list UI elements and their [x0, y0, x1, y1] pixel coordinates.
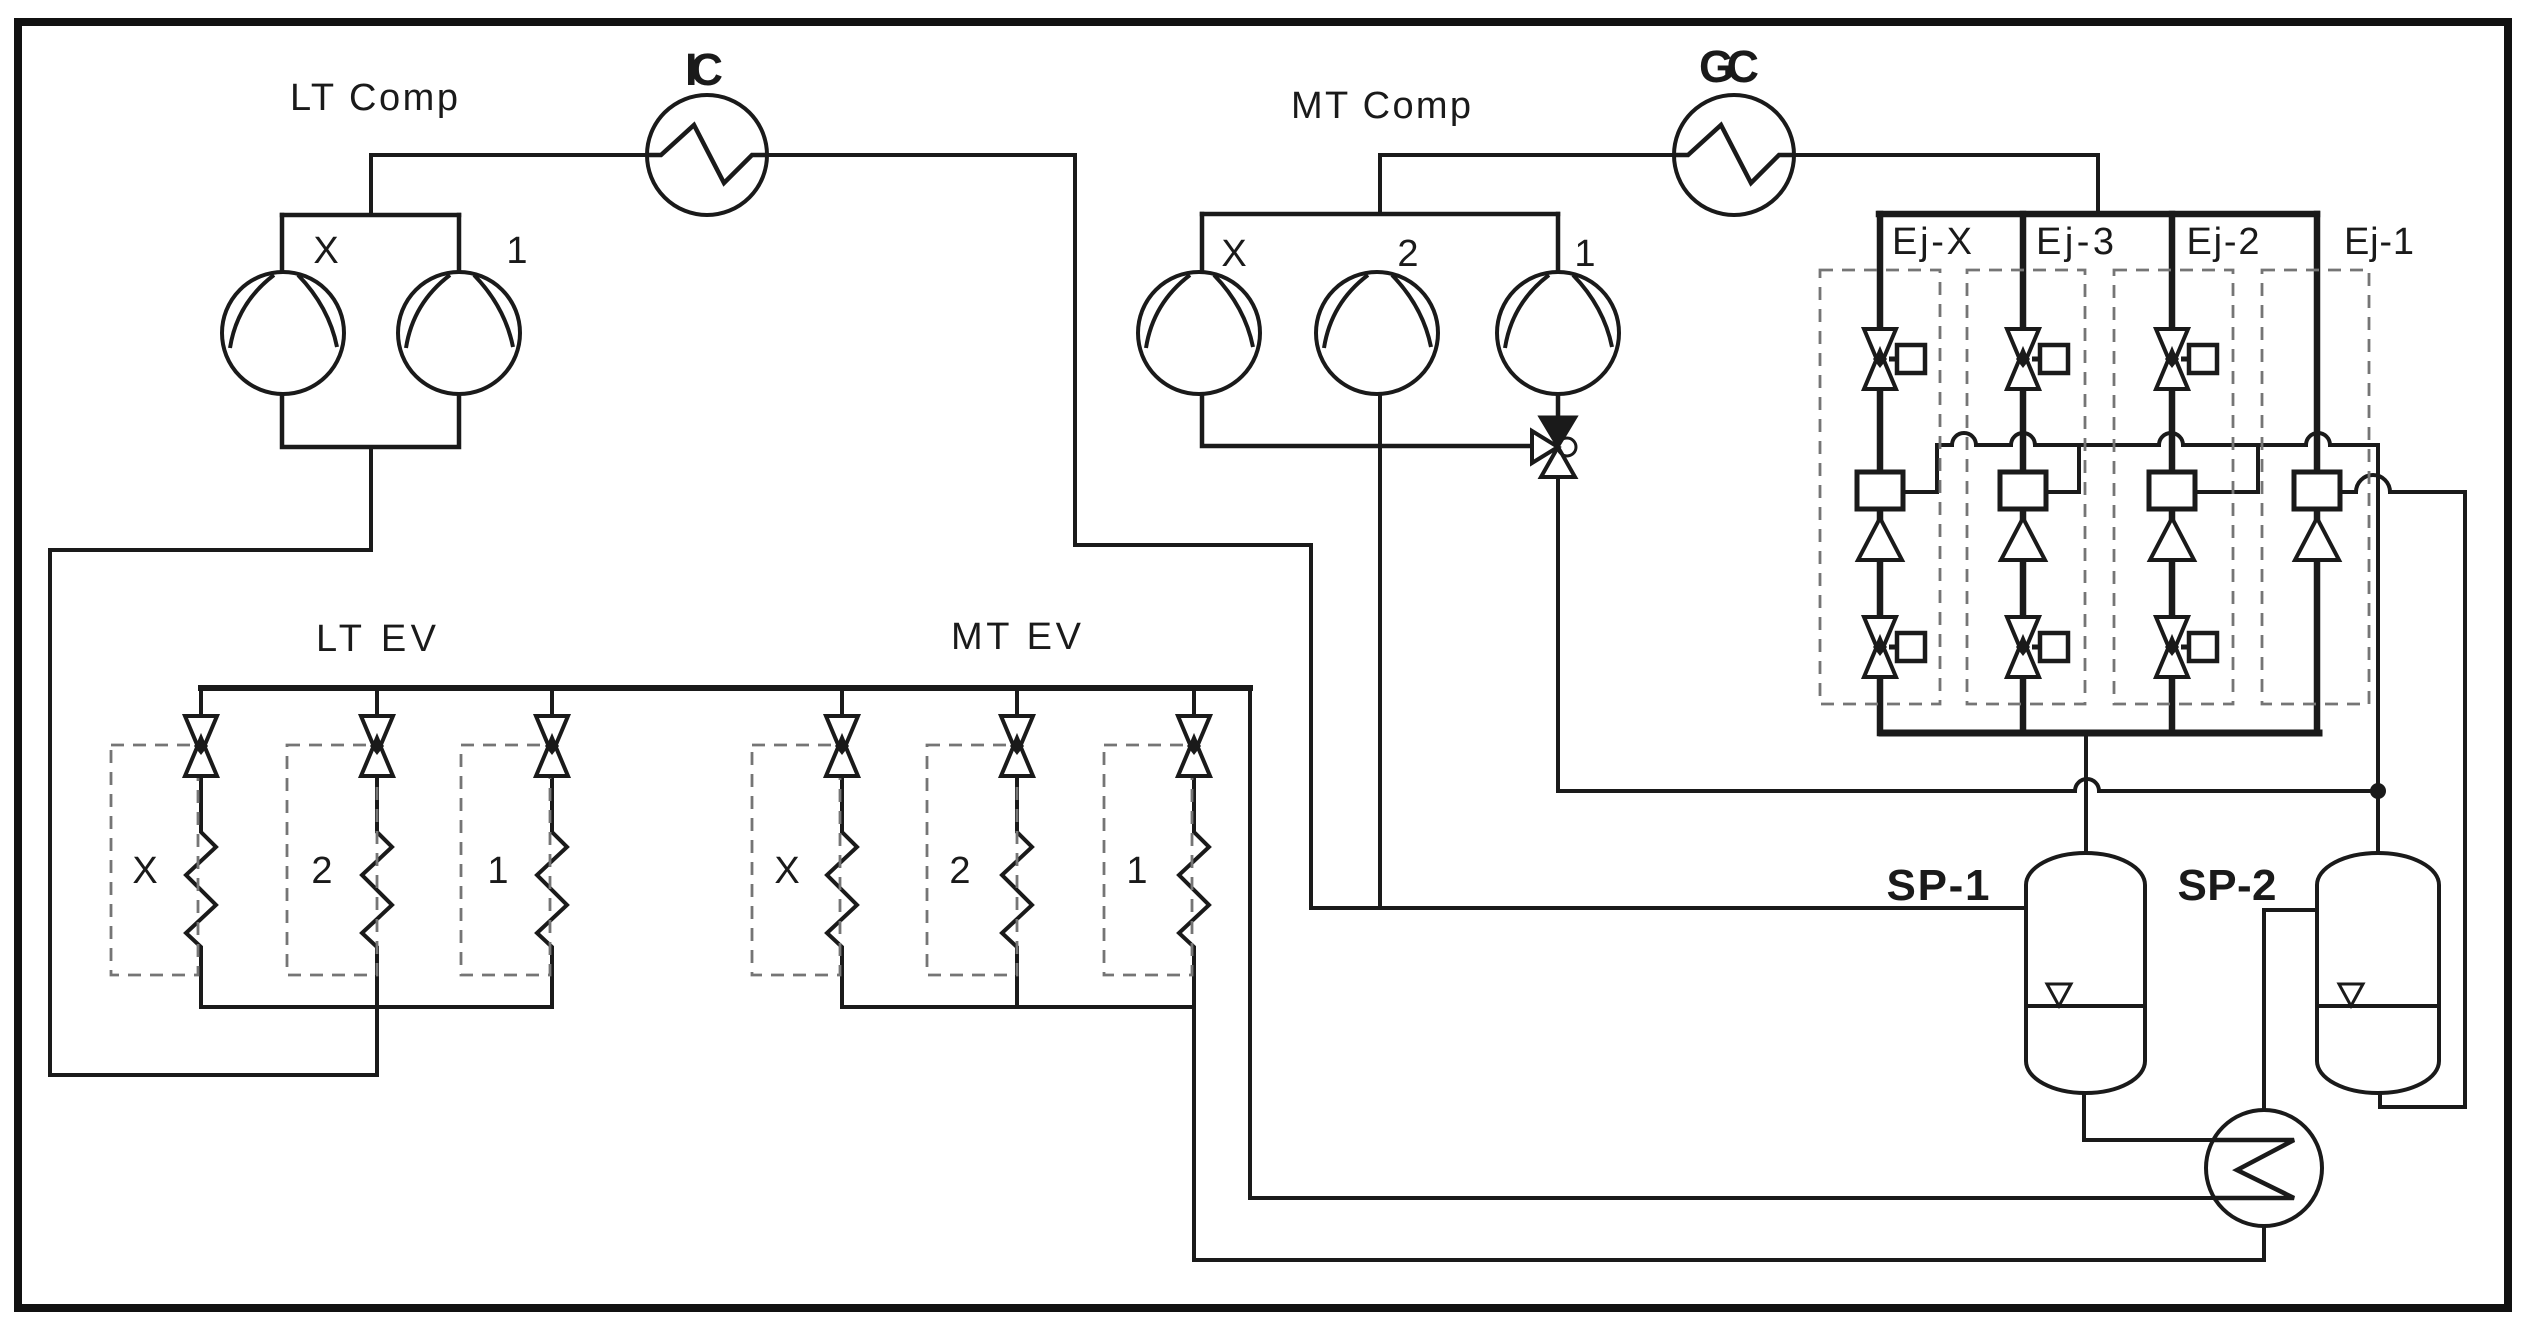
svg-text:X: X — [774, 850, 799, 892]
svg-text:X: X — [313, 230, 338, 272]
svg-text:1: 1 — [1126, 850, 1147, 892]
svg-text:1: 1 — [506, 230, 527, 272]
svg-text:Ej-2: Ej-2 — [2187, 221, 2260, 263]
svg-text:2: 2 — [1397, 233, 1418, 275]
svg-text:LT EV: LT EV — [316, 618, 437, 660]
svg-text:LT Comp: LT Comp — [290, 77, 458, 119]
svg-text:X: X — [132, 850, 157, 892]
svg-text:GC: GC — [1699, 41, 1759, 92]
svg-text:2: 2 — [311, 850, 332, 892]
svg-text:2: 2 — [949, 850, 970, 892]
svg-text:Ej-1: Ej-1 — [2344, 221, 2414, 263]
svg-text:IC: IC — [685, 44, 723, 95]
svg-text:1: 1 — [487, 850, 508, 892]
svg-text:SP-2: SP-2 — [2178, 861, 2277, 910]
svg-text:MT EV: MT EV — [951, 616, 1082, 658]
svg-text:X: X — [1221, 233, 1246, 275]
svg-text:MT Comp: MT Comp — [1291, 85, 1471, 127]
svg-text:SP-1: SP-1 — [1887, 861, 1990, 910]
svg-text:Ej-X: Ej-X — [1892, 221, 1972, 263]
svg-text:1: 1 — [1574, 233, 1595, 275]
